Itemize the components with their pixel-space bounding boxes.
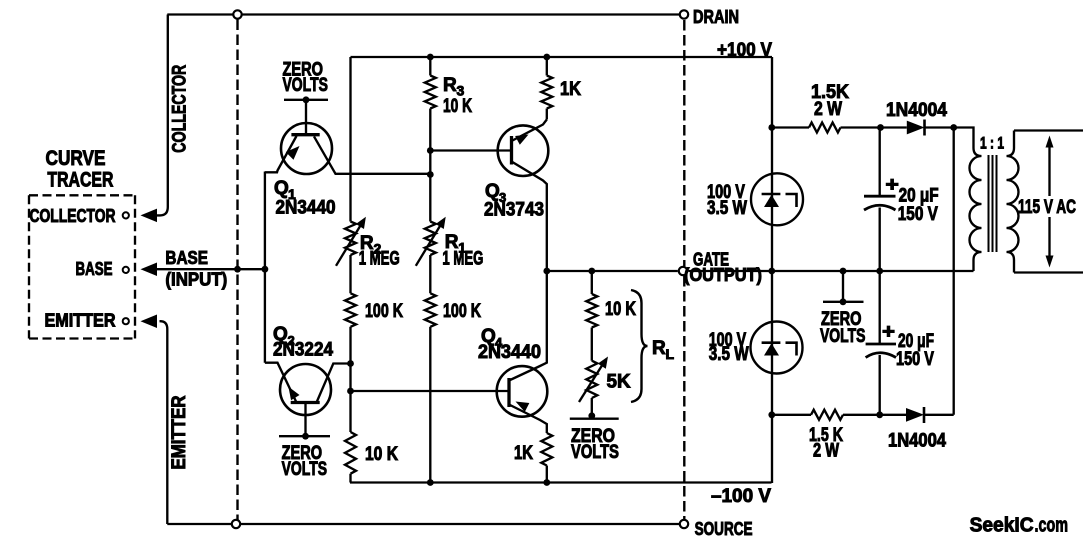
svg-text:1 MEG: 1 MEG bbox=[359, 249, 400, 270]
svg-text:10 K: 10 K bbox=[443, 96, 472, 117]
svg-text:150 V: 150 V bbox=[898, 204, 938, 225]
svg-text:Q: Q bbox=[274, 178, 289, 199]
svg-text:COLLECTOR: COLLECTOR bbox=[30, 206, 116, 226]
svg-text:VOLTS: VOLTS bbox=[283, 75, 329, 96]
svg-text:EMITTER: EMITTER bbox=[45, 311, 116, 331]
svg-text:BASE: BASE bbox=[165, 247, 208, 268]
svg-text:.com: .com bbox=[1035, 514, 1069, 537]
svg-text:CURVE: CURVE bbox=[46, 147, 106, 170]
svg-text:10 K: 10 K bbox=[365, 444, 398, 465]
svg-text:3.5 W: 3.5 W bbox=[709, 344, 749, 365]
svg-text:3.5 W: 3.5 W bbox=[707, 198, 747, 219]
svg-text:+: + bbox=[882, 321, 895, 343]
svg-text:100 K: 100 K bbox=[365, 301, 403, 322]
svg-text:BASE: BASE bbox=[76, 259, 113, 279]
svg-text:2N3743: 2N3743 bbox=[484, 200, 544, 221]
svg-text:2 W: 2 W bbox=[813, 441, 839, 462]
svg-text:2N3224: 2N3224 bbox=[273, 340, 333, 361]
svg-text:2N3440: 2N3440 bbox=[478, 342, 541, 363]
svg-text:L: L bbox=[666, 346, 675, 362]
svg-text:1K: 1K bbox=[514, 443, 533, 464]
svg-text:DRAIN: DRAIN bbox=[693, 7, 739, 27]
svg-text:VOLTS: VOLTS bbox=[820, 326, 866, 347]
svg-text:2 W: 2 W bbox=[814, 99, 842, 120]
svg-text:+: + bbox=[885, 174, 899, 196]
svg-text:1N4004: 1N4004 bbox=[886, 100, 947, 121]
svg-text:(OUTPUT): (OUTPUT) bbox=[684, 265, 762, 285]
svg-text:TRACER: TRACER bbox=[47, 169, 113, 192]
svg-text:150 V: 150 V bbox=[896, 349, 934, 370]
svg-text:1 MEG: 1 MEG bbox=[442, 249, 483, 270]
svg-text:1 : 1: 1 : 1 bbox=[980, 134, 1004, 153]
svg-text:100 K: 100 K bbox=[443, 301, 481, 322]
svg-text:VOLTS: VOLTS bbox=[282, 459, 328, 480]
svg-text:10 K: 10 K bbox=[605, 299, 636, 320]
svg-text:2N3440: 2N3440 bbox=[276, 198, 336, 219]
svg-text:1N4004: 1N4004 bbox=[888, 431, 946, 452]
svg-text:EMITTER: EMITTER bbox=[169, 395, 190, 469]
svg-text:–100 V: –100 V bbox=[711, 486, 771, 507]
svg-text:+100 V: +100 V bbox=[717, 40, 772, 61]
svg-text:COLLECTOR: COLLECTOR bbox=[170, 64, 191, 152]
svg-text:115 V AC: 115 V AC bbox=[1018, 197, 1076, 218]
svg-text:R: R bbox=[652, 338, 666, 359]
svg-text:1K: 1K bbox=[560, 79, 581, 100]
svg-text:5K: 5K bbox=[607, 372, 631, 393]
svg-text:(INPUT): (INPUT) bbox=[165, 269, 227, 290]
svg-text:SeekIC: SeekIC bbox=[970, 514, 1034, 537]
svg-text:VOLTS: VOLTS bbox=[571, 442, 619, 463]
svg-text:SOURCE: SOURCE bbox=[695, 519, 753, 539]
svg-text:R: R bbox=[443, 75, 457, 96]
